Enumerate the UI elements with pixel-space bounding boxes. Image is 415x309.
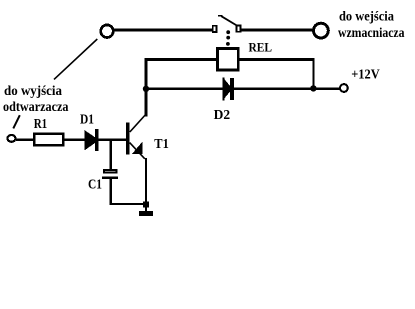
svg-text:REL: REL <box>249 40 273 55</box>
svg-text:D1: D1 <box>80 113 94 128</box>
svg-text:R1: R1 <box>34 117 48 132</box>
svg-text:D2: D2 <box>214 108 231 123</box>
svg-text:odtwarzacza: odtwarzacza <box>3 99 69 114</box>
svg-text:wzmacniacza: wzmacniacza <box>338 25 405 40</box>
svg-text:C1: C1 <box>88 178 102 193</box>
svg-text:+12V: +12V <box>351 68 380 83</box>
svg-text:do wejścia: do wejścia <box>339 8 394 23</box>
svg-text:T1: T1 <box>154 137 169 152</box>
svg-text:do wyjścia: do wyjścia <box>4 83 62 98</box>
